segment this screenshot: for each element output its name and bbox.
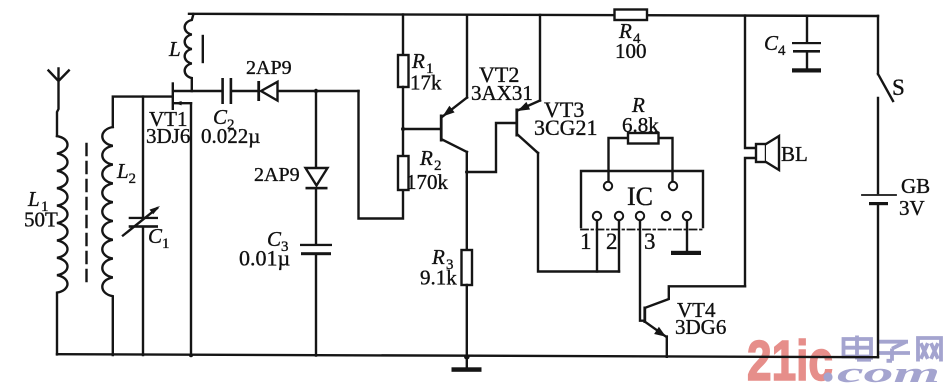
inductor L core <box>202 36 204 62</box>
transformer core <box>85 144 87 285</box>
node diode junction <box>314 89 318 93</box>
wire VT3 collector to IC <box>538 153 619 272</box>
svg-text:0.01µ: 0.01µ <box>239 246 290 271</box>
svg-text:R: R <box>411 49 425 73</box>
wire coupling to VT3 base <box>467 123 515 172</box>
node source rail <box>189 353 193 357</box>
svg-text:2AP9: 2AP9 <box>246 57 292 79</box>
speaker BL <box>756 144 766 162</box>
svg-text:3DG6: 3DG6 <box>675 315 726 339</box>
svg-text:9.1k: 9.1k <box>420 266 457 290</box>
wire IC pin2 <box>618 221 620 272</box>
svg-text:0.022µ: 0.022µ <box>201 124 260 148</box>
wire C4 branch <box>806 16 808 42</box>
inductor L2 <box>102 127 113 355</box>
svg-text:C: C <box>148 224 163 248</box>
IC box dashed bottom <box>581 229 704 231</box>
watermark 21ic <box>747 329 941 384</box>
wire C1 branch <box>142 97 144 217</box>
diode 2AP9 (detector) <box>257 81 260 101</box>
wire to diode 2 <box>315 91 317 168</box>
wire R3 to ground rail <box>466 285 468 357</box>
resistor R 6.8k <box>628 133 659 144</box>
svg-text:S: S <box>892 75 905 100</box>
svg-text:17k: 17k <box>410 71 442 95</box>
wire C1 to rail <box>142 228 144 355</box>
inductor L1 <box>57 136 68 354</box>
wire to VT2 base <box>403 128 440 130</box>
wire diode to corner <box>278 90 359 92</box>
IC box <box>581 171 703 227</box>
resistor R3 <box>462 250 473 285</box>
svg-text:L: L <box>116 159 129 183</box>
svg-text:1: 1 <box>580 229 592 254</box>
svg-text:3DJ6: 3DJ6 <box>146 124 190 148</box>
wire VT2 emitter to rail <box>466 15 468 98</box>
transistor VT3 <box>515 109 518 137</box>
node ground junction <box>464 354 470 360</box>
switch S <box>878 16 893 193</box>
wire IC pin5 to ground <box>686 221 688 252</box>
svg-text:100: 100 <box>615 39 647 63</box>
resistor R1 <box>398 55 409 87</box>
transistor VT2 <box>440 115 443 142</box>
ground <box>466 357 468 368</box>
svg-text:1: 1 <box>162 236 170 252</box>
svg-text:3: 3 <box>644 229 656 254</box>
capacitor C1 <box>129 217 158 228</box>
transistor VT1 <box>172 82 174 110</box>
svg-text:4: 4 <box>778 43 786 59</box>
wire IC pin3 to VT4 <box>640 221 644 321</box>
wire VT4 emitter to rail <box>666 337 668 357</box>
node base divider <box>401 127 405 131</box>
svg-text:2AP9: 2AP9 <box>254 164 300 186</box>
ground C4 <box>792 68 821 72</box>
svg-text:3AX31: 3AX31 <box>471 81 533 105</box>
wire battery to rail <box>877 205 879 357</box>
svg-text:R: R <box>419 146 433 170</box>
top rail <box>189 14 878 16</box>
wire R1 top <box>402 15 404 56</box>
svg-text:50T: 50T <box>24 208 58 232</box>
resistor R 6.8k wires <box>609 138 673 182</box>
svg-text:2: 2 <box>606 229 618 254</box>
svg-text:6.8k: 6.8k <box>622 113 659 137</box>
wire IC pin1 <box>596 221 598 272</box>
wire VT2 collector down <box>466 152 468 250</box>
wire diode2 to C3 <box>315 189 317 244</box>
resistor R2 <box>398 156 409 190</box>
inductor L <box>185 14 194 91</box>
svg-text:IC: IC <box>627 182 653 211</box>
wire C3 to rail <box>315 255 317 355</box>
capacitor C2 <box>221 78 232 104</box>
svg-text:BL: BL <box>781 142 808 166</box>
wire VT1 source down <box>190 103 192 355</box>
wire VT3 emitter to rail <box>539 15 541 101</box>
wire AGC loop <box>359 91 404 219</box>
battery GB <box>862 194 896 196</box>
wire L2 top to gate <box>113 97 172 127</box>
svg-text:GB: GB <box>901 174 930 198</box>
svg-text:C: C <box>764 31 779 55</box>
wire R1 to node <box>402 87 404 156</box>
capacitor C4 <box>792 42 821 53</box>
transistor VT4 <box>643 307 646 324</box>
resistor R4 <box>615 10 648 21</box>
bottom rail <box>57 354 878 357</box>
capacitor C3 <box>300 244 332 255</box>
ground IC <box>671 251 701 255</box>
IC pins <box>593 182 691 220</box>
svg-text:3V: 3V <box>899 196 925 220</box>
wire speaker branch <box>745 16 756 287</box>
svg-text:3CG21: 3CG21 <box>534 115 598 140</box>
node VT2 collector <box>465 170 469 174</box>
svg-text:L: L <box>168 37 181 61</box>
antenna <box>49 69 69 137</box>
diode 2AP9 (clamp) <box>306 168 328 186</box>
svg-text:2: 2 <box>129 171 137 187</box>
svg-text:170k: 170k <box>406 170 449 194</box>
